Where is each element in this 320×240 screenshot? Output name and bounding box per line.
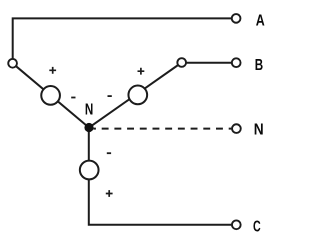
polarity - (source phase C) <box>107 152 111 154</box>
wire: right diagonal (small circle to node N) <box>89 63 182 128</box>
svg-text:C: C <box>253 219 261 236</box>
voltage source: phase C (bottom) <box>80 161 99 180</box>
polarity + (source phase B) <box>138 68 145 75</box>
svg-text:N: N <box>254 121 264 138</box>
polarity - (source phase A) <box>71 97 75 99</box>
terminal C <box>232 220 241 229</box>
svg-text:B: B <box>255 57 263 74</box>
polarity - (source phase B) <box>108 95 112 97</box>
wire: left diagonal (switch circle to node N) <box>13 63 89 127</box>
polarity + (source phase C) <box>106 190 113 197</box>
terminal B <box>232 58 241 67</box>
wire: bottom run (node N down and right to terminal C) <box>89 128 232 225</box>
voltage source: phase B (right) <box>128 86 147 105</box>
wire: dashed neutral line (node N to terminal N) <box>93 128 231 130</box>
small circle: right branch junction <box>177 58 186 67</box>
voltage source: phase A (left) <box>41 86 60 105</box>
wire: phase A lead (top-left corner run from terminal A) <box>13 18 232 59</box>
polarity + (source phase A) <box>49 67 56 74</box>
node N (neutral junction dot) <box>84 123 93 132</box>
terminal N <box>232 124 241 133</box>
small circle: left branch junction <box>8 59 17 68</box>
terminal A <box>232 14 241 23</box>
svg-text:A: A <box>256 13 265 30</box>
svg-text:N: N <box>85 102 93 119</box>
wire: phase B lead (terminal B to small circle) <box>182 62 232 64</box>
